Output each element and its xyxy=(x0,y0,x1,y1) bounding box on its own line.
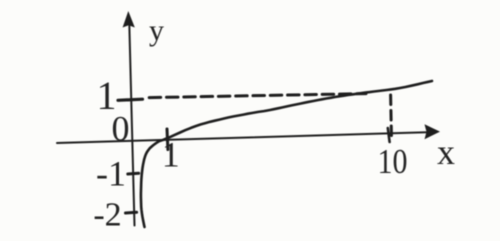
svg-text:0: 0 xyxy=(112,109,130,149)
tick x=10 xyxy=(388,128,390,142)
tick y=-1 xyxy=(128,172,139,176)
svg-text:x: x xyxy=(437,132,455,172)
tick x=1 xyxy=(166,129,170,150)
log curve xyxy=(141,81,432,227)
x-axis xyxy=(57,132,427,143)
svg-text:-1: -1 xyxy=(96,154,126,194)
svg-text:10: 10 xyxy=(378,142,408,181)
svg-text:y: y xyxy=(149,14,164,47)
y-axis arrowhead xyxy=(123,11,135,28)
dashed line x=10 xyxy=(389,95,393,139)
tick y=1 xyxy=(118,99,143,100)
tick y=-2 xyxy=(126,211,137,215)
svg-text:-2: -2 xyxy=(93,197,121,234)
dashed line y=1 xyxy=(149,94,366,98)
x-axis arrowhead xyxy=(425,124,441,139)
y-axis xyxy=(129,24,134,226)
svg-text:1: 1 xyxy=(162,135,180,175)
